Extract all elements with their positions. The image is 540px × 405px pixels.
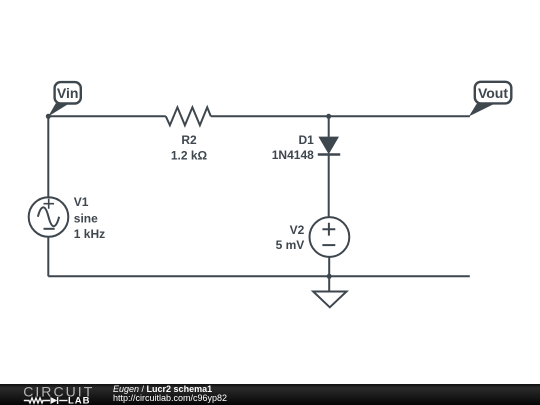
svg-text:Vout: Vout	[478, 85, 508, 101]
diode D1	[318, 137, 340, 155]
svg-text:V1: V1	[74, 195, 89, 209]
flag Vin	[48, 82, 81, 116]
svg-text:D1: D1	[298, 133, 314, 147]
svg-text:1N4148: 1N4148	[272, 148, 314, 162]
wire left vertical: Vin node to V1	[47, 116, 49, 197]
label D1 value	[272, 133, 314, 162]
svg-text:1.2 kΩ: 1.2 kΩ	[171, 148, 208, 162]
voltage source V1 (sine)	[29, 197, 69, 237]
svg-text:Vin: Vin	[57, 85, 79, 101]
svg-text:LAB: LAB	[68, 395, 91, 405]
wire top-left: Vin node to resistor	[48, 115, 166, 117]
ground	[313, 292, 346, 308]
flag Vout	[469, 82, 511, 117]
footer bar	[0, 384, 540, 405]
svg-text:sine: sine	[74, 211, 98, 225]
resistor R2	[166, 107, 211, 125]
wire bottom rail	[48, 275, 470, 277]
svg-text:R2: R2	[181, 133, 197, 147]
wire V1 to bottom rail	[47, 237, 49, 276]
wire D1 cathode to V2	[328, 155, 330, 218]
voltage source V2	[310, 217, 350, 257]
CircuitLab logo	[0, 384, 100, 405]
svg-text:5 mV: 5 mV	[276, 238, 305, 252]
wire V2 to bottom rail	[328, 257, 330, 277]
wire resistor to Vout node	[211, 115, 470, 117]
junction node D1/top wire	[326, 114, 331, 119]
wire D1 anode from top wire	[328, 116, 330, 137]
wire ground stub	[328, 276, 330, 291]
svg-text:V2: V2	[290, 223, 305, 237]
svg-text:1 kHz: 1 kHz	[74, 227, 105, 241]
label V1 value	[74, 195, 105, 241]
footer title text	[113, 385, 227, 404]
junction node Vin	[46, 114, 51, 119]
junction node V2/bottom rail	[327, 274, 332, 279]
label V2 value	[276, 223, 305, 252]
label R2 value	[171, 133, 208, 162]
